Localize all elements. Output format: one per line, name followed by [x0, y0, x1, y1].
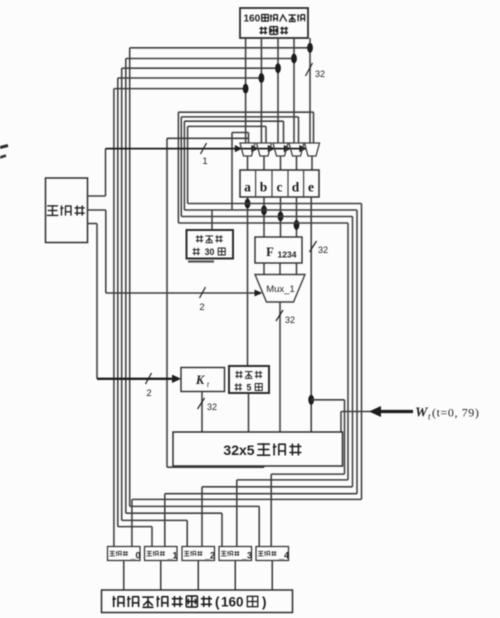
wire Mux_1 output [279, 302, 281, 432]
slash 32 at F output [310, 241, 317, 252]
arrowhead into mux c [268, 145, 276, 152]
arrowhead into mux b [251, 145, 258, 152]
junction dot d [294, 220, 300, 230]
wire c output run [181, 216, 352, 218]
block: rotate left 5 [229, 366, 269, 393]
wire buffer column 0 [245, 38, 247, 143]
junction dot on buffer column 4 [307, 43, 313, 53]
block: 160-bit input data buffer [240, 8, 308, 38]
wire a output run [188, 203, 362, 205]
svg-text:32: 32 [315, 69, 325, 79]
slash 32 below Kt [198, 398, 205, 409]
arrowhead into Kt [172, 375, 181, 383]
wire b output column [263, 197, 265, 237]
wire adder return top run [167, 137, 249, 139]
block: adder_4 [256, 547, 289, 561]
svg-text:d: d [292, 180, 300, 195]
svg-text:W: W [415, 406, 429, 421]
svg-text:a: a [244, 180, 251, 195]
wire d output column [296, 197, 298, 237]
wire feedback c to mux-d [180, 117, 182, 217]
block: output data buffer 160-bit [102, 590, 293, 613]
wire F to Mux_1 stub [263, 263, 265, 275]
wire rot30 input stub [211, 210, 213, 230]
edge mark 2 [0, 156, 6, 158]
wire H3 branch [126, 58, 294, 60]
wire F to Mux_1 stub [279, 263, 281, 275]
arrowhead into mux e [299, 145, 307, 152]
svg-text:(t=0, 79): (t=0, 79) [432, 406, 480, 420]
wire adder_1 output [160, 561, 162, 591]
block: F function [255, 237, 302, 263]
wire H4 branch [130, 47, 310, 49]
wire adder output run left [167, 466, 264, 468]
wire adder return riser [166, 138, 168, 467]
wire mux row select line [106, 148, 307, 150]
junction dot b [261, 205, 267, 215]
wire right feedback c [352, 217, 354, 487]
wire H3 to adder3 left input [126, 512, 222, 514]
svg-text:32: 32 [285, 315, 295, 325]
mux b [257, 143, 272, 156]
wire e branch to adder4 [311, 399, 344, 401]
wire left bundle vertical H4 [129, 48, 131, 507]
wire left bundle vertical H3 [125, 59, 127, 514]
svg-text:5: 5 [247, 383, 252, 393]
wire drop into mux-a right input [248, 133, 250, 144]
wire controller out2 to Mux_1 select [88, 209, 106, 211]
wire d output run [178, 222, 348, 224]
register divider [287, 170, 289, 197]
svg-text:e: e [308, 180, 314, 195]
svg-text:_4: _4 [278, 551, 289, 561]
junction dot on buffer column 1 [259, 73, 265, 83]
svg-text:b: b [260, 180, 268, 195]
wire feedback a to mux-b [187, 126, 189, 203]
block: adder_3 [219, 547, 252, 561]
junction dot on buffer column 0 [243, 84, 249, 94]
arrowhead into mux d [284, 145, 292, 152]
wire H1 branch [118, 77, 262, 79]
block: adder_1 [145, 547, 178, 561]
junction dot c [278, 211, 284, 221]
wire c output column [280, 197, 282, 237]
wire Kt output [201, 392, 203, 433]
svg-text:160: 160 [244, 14, 261, 25]
wire right feedback b [356, 210, 358, 494]
svg-text:2: 2 [146, 388, 151, 399]
bus width slash 32 top [306, 63, 313, 76]
slash 2 on Kt line [146, 373, 152, 384]
wire H1 to adder1 left input [118, 526, 152, 528]
mux Mux_1 [255, 275, 305, 303]
register divider [255, 170, 257, 197]
arrowhead Wt [369, 406, 381, 417]
wire buffer column 4 [309, 38, 311, 143]
block: Kt constant [181, 368, 225, 392]
wire rot30 path riser [231, 133, 233, 211]
svg-text:160: 160 [221, 595, 244, 610]
wire right feedback a [361, 204, 363, 500]
mux a [240, 143, 255, 156]
svg-text:1234: 1234 [278, 250, 297, 260]
svg-text:32: 32 [207, 402, 217, 412]
wire H2 branch [122, 67, 278, 69]
wire rot5 output [248, 393, 250, 432]
wire Wt input line [341, 411, 371, 413]
block: adder_0 [108, 547, 141, 561]
wire adder_3 output [234, 561, 236, 591]
wire H0 branch [114, 88, 246, 90]
block: adder_2 [182, 547, 215, 561]
wire left bundle vertical H2 [121, 68, 123, 520]
wire controller out1 to mux select line [88, 195, 106, 197]
mux e [305, 143, 320, 156]
wire F to Mux_1 stub [296, 263, 298, 275]
wire rot30 path top run [232, 132, 249, 134]
wire buffer column 3 [293, 38, 295, 143]
junction dot e [308, 395, 314, 405]
svg-text:_1: _1 [166, 551, 177, 561]
svg-text:32x5: 32x5 [223, 442, 254, 458]
edge mark [0, 146, 8, 148]
register divider [271, 170, 273, 197]
wire adder_4 output [271, 561, 273, 591]
wire a output column [247, 197, 249, 366]
svg-text:_0: _0 [129, 551, 140, 561]
block: rotate left 30 [187, 230, 234, 259]
mux c [273, 143, 288, 156]
slash 1 on mux select line [201, 143, 207, 154]
block: controller [46, 178, 88, 243]
svg-text:c: c [277, 180, 283, 195]
wire controller out3 to Kt [88, 223, 98, 225]
wire adder_0 output [123, 561, 125, 591]
register divider [303, 170, 305, 197]
svg-text:2: 2 [199, 302, 204, 313]
svg-text:): ) [262, 595, 267, 610]
svg-text:Mux_1: Mux_1 [266, 284, 295, 295]
svg-text:30: 30 [205, 247, 215, 257]
wire buffer column 1 [260, 38, 262, 143]
arrowhead into mux a [235, 145, 243, 152]
wire left bundle vertical H0 [113, 89, 115, 547]
block: 32x5 adder [173, 432, 343, 466]
wire adder output stub [263, 466, 265, 467]
arrowhead into Mux_1 [255, 290, 263, 297]
wire right feedback d [347, 223, 349, 480]
wire adder_2 output [197, 561, 199, 591]
svg-text:(: ( [215, 595, 220, 610]
slash 32 below Mux_1 [276, 310, 283, 321]
junction dot on buffer column 3 [291, 54, 297, 64]
wire feedback d to mux-e [177, 112, 179, 223]
slash 2 on Mux_1 select [200, 287, 206, 298]
wire left bundle vertical H1 [117, 78, 119, 527]
svg-text:32: 32 [318, 245, 328, 255]
svg-text:F: F [266, 245, 274, 259]
svg-text:_3: _3 [241, 551, 252, 561]
wire H2 to adder2 left input [122, 519, 188, 521]
junction dot on buffer column 2 [275, 63, 281, 73]
mux d [289, 143, 304, 156]
wire H4 to adder4 left input [130, 505, 260, 507]
junction dot a [245, 199, 251, 209]
block: registers a b c d e [240, 170, 319, 197]
wire Wt drop to adder [340, 412, 342, 433]
svg-text:_2: _2 [204, 551, 215, 561]
wire buffer column 2 [277, 38, 279, 143]
svg-text:1: 1 [202, 156, 207, 167]
wire e output column [310, 197, 312, 432]
wire feedback b to mux-c [183, 121, 185, 210]
wire b output run [184, 209, 357, 211]
